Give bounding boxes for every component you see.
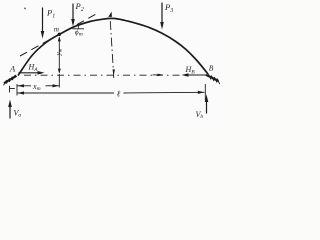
load P3 arrow	[161, 3, 163, 26]
H_A thrust arrow	[19, 72, 41, 74]
axis line arrow mark	[158, 74, 164, 77]
springing dash-dot line A-B	[24, 74, 182, 76]
arch axis curve A to B	[18, 18, 208, 75]
angle arc phi_m	[78, 25, 79, 29]
extension below baseline for x_m	[58, 74, 60, 88]
H_B thrust arrow	[186, 74, 208, 76]
load P1 arrow	[42, 8, 44, 35]
crown mark (wedge at apex)	[108, 12, 112, 17]
tangent dashed line through m	[20, 13, 98, 56]
reaction V_B arrow	[206, 99, 208, 114]
l dimension line	[17, 92, 114, 94]
reaction V_A arrow	[9, 104, 11, 119]
svg-text:A: A	[9, 64, 16, 74]
right support (hatched)	[206, 75, 219, 81]
svg-text:m: m	[54, 26, 59, 34]
l dimension extension line left	[9, 86, 11, 93]
l dimension extension line right	[204, 84, 206, 100]
x_m dimension line	[17, 85, 31, 87]
stray speck	[24, 7, 26, 9]
left support (hatched)	[4, 76, 17, 83]
vertical center line (dash-dot)	[110, 21, 114, 78]
point m dot	[58, 33, 61, 36]
load P2 arrow	[72, 4, 74, 23]
horizontal reference at load point	[73, 28, 85, 30]
x_m extension line at A	[16, 84, 18, 96]
svg-text:B: B	[209, 64, 214, 73]
support base tick	[10, 88, 15, 90]
centerline bottom arrowhead	[113, 69, 115, 75]
y_m dimension line	[58, 38, 60, 73]
svg-text:ℓ: ℓ	[117, 89, 121, 99]
